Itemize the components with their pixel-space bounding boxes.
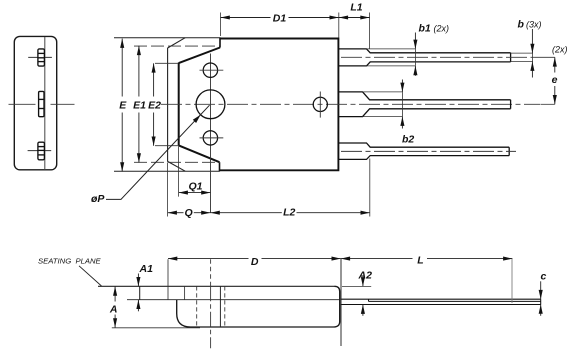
- svg-text:Q1: Q1: [188, 180, 202, 192]
- svg-text:e: e: [552, 74, 558, 86]
- dimension b2: [402, 80, 414, 146]
- dimension D1: [221, 12, 339, 37]
- side view body edge line: [184, 286, 186, 299]
- side view L extension line left: [340, 259, 342, 346]
- right pilot hole: [313, 97, 327, 111]
- upper pilot hole crosshair: [200, 69, 224, 71]
- hole vertical centerline: [210, 54, 212, 214]
- lead 2 b2 outer profile: [363, 92, 403, 117]
- dimension Q: [168, 163, 211, 219]
- svg-text:L: L: [417, 255, 423, 267]
- dimension E: [119, 39, 127, 172]
- front view raised body bottom chamfer: [179, 145, 220, 162]
- front view raised body left edge: [178, 63, 180, 146]
- rear view pin3 crosshair: [28, 150, 52, 152]
- rear view pin2 tab: [39, 91, 44, 116]
- svg-text:(2x): (2x): [552, 45, 568, 55]
- dimension e (2x): [535, 45, 568, 105]
- rear view pin3 tab: [38, 142, 45, 160]
- dimension L2: [211, 159, 370, 219]
- dimension A2: [358, 269, 373, 316]
- svg-text:Q: Q: [185, 207, 193, 219]
- lead 3 centerline: [341, 150, 516, 152]
- hidden hole right edge dashed: [224, 286, 226, 327]
- hole diameter leader: [91, 105, 210, 205]
- svg-text:øP: øP: [91, 193, 105, 205]
- dimension L: [341, 255, 513, 267]
- front view flange bottom edge with E extension: [114, 170, 220, 172]
- dimension E2: [148, 63, 178, 146]
- main horizontal centerline: [161, 103, 541, 105]
- svg-text:(3x): (3x): [526, 20, 542, 30]
- hidden tab bottom edge dashed: [134, 161, 220, 163]
- dimension Q1: [179, 146, 211, 196]
- svg-text:b2: b2: [402, 133, 414, 145]
- svg-text:L1: L1: [350, 2, 362, 14]
- svg-text:E1: E1: [133, 99, 146, 111]
- svg-text:D1: D1: [273, 12, 287, 24]
- seating plane right extension: [342, 285, 371, 287]
- dimension b1 (2x): [415, 23, 449, 76]
- right pilot hole crosshair: [319, 92, 321, 118]
- hidden hole left edge dashed: [196, 286, 198, 327]
- svg-text:A2: A2: [358, 269, 373, 281]
- side view tab bottom line: [127, 299, 340, 301]
- lower pilot hole crosshair: [200, 137, 224, 139]
- svg-text:SEATING PLANE: SEATING PLANE: [38, 256, 102, 265]
- rear view body outline: [14, 36, 56, 169]
- svg-text:E2: E2: [148, 100, 161, 112]
- side view flange edge line: [167, 259, 169, 299]
- lead 2 outline: [338, 92, 510, 117]
- side view lead: [340, 299, 540, 304]
- dimension D: [168, 256, 341, 268]
- lead 1 tip extension lines: [511, 53, 533, 62]
- rear view horizontal centerline: [9, 103, 36, 105]
- mounting hole P: [196, 90, 225, 119]
- front view bottom-left chamfer: [168, 161, 186, 171]
- side view step edge line: [219, 286, 221, 327]
- side view body outline: [177, 286, 340, 327]
- dimension c: [541, 270, 547, 316]
- lead 1 centerline: [341, 56, 535, 58]
- svg-text:E: E: [119, 99, 127, 111]
- svg-text:c: c: [541, 270, 547, 282]
- dimension L1: [339, 2, 370, 49]
- svg-text:D: D: [251, 256, 259, 268]
- rear view pin1 tab: [38, 49, 45, 66]
- side view L extension line right: [511, 259, 513, 303]
- seating plane leader: [79, 266, 102, 286]
- dimension A1: [138, 263, 153, 311]
- svg-text:L2: L2: [283, 207, 295, 219]
- front view bottom step: [219, 162, 221, 171]
- svg-text:A1: A1: [139, 263, 154, 275]
- front view flange left edge: [167, 48, 169, 162]
- lead 3 outline: [338, 143, 509, 159]
- front view raised body top chamfer: [179, 48, 220, 64]
- dimension A: [109, 286, 200, 327]
- hidden tab top edge dashed: [134, 45, 220, 47]
- lower pilot hole: [203, 131, 217, 145]
- front view flange top edge with E extension: [114, 37, 221, 39]
- front view top step: [219, 38, 221, 48]
- front view top-left chamfer: [168, 38, 186, 48]
- seating plane line: [98, 285, 335, 287]
- dimension E1: [133, 46, 146, 163]
- lead 1 b1 outer profile: [367, 49, 416, 66]
- upper pilot hole: [203, 63, 217, 77]
- svg-text:A: A: [109, 303, 118, 315]
- dimension b (3x): [518, 19, 542, 78]
- side view hole centerline: [210, 259, 212, 286]
- side view tab left end: [139, 286, 141, 299]
- svg-text:b: b: [518, 19, 525, 31]
- rear view pin1 crosshair: [28, 56, 52, 58]
- svg-text:b1: b1: [419, 23, 431, 35]
- lead 1 top outline: [338, 49, 510, 66]
- front view molded body thick outline: [220, 39, 339, 171]
- rear view inner edge line: [44, 37, 46, 170]
- svg-text:(2x): (2x): [434, 24, 450, 34]
